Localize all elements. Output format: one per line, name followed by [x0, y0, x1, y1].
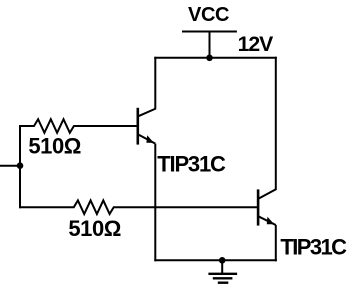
svg-text:510Ω: 510Ω: [28, 133, 81, 158]
svg-text:TIP31C: TIP31C: [280, 235, 347, 260]
wire left bus vertical: [19, 125, 21, 208]
svg-text:510Ω: 510Ω: [68, 216, 121, 241]
transistor Q2 emitter arrow: [264, 217, 276, 227]
wire VCC stub: [209, 32, 211, 58]
wire Q1 emitter vertical: [154, 144, 156, 262]
resistor R1: [19, 119, 138, 133]
resistor R2: [19, 200, 258, 214]
transistor Q1 emitter arrow: [144, 135, 156, 146]
wire Q2 emitter vertical: [275, 225, 277, 261]
node ground junction dot: [219, 257, 226, 264]
svg-text:VCC: VCC: [188, 4, 229, 26]
transistor Q2 collector diagonal: [258, 189, 276, 199]
wire Q1 collector vertical: [154, 57, 156, 109]
svg-text:12V: 12V: [238, 33, 274, 56]
transistor Q1 collector diagonal: [138, 109, 156, 117]
wire top rail: [154, 57, 276, 59]
node VCC junction dot: [206, 55, 213, 62]
transistor Q2 base bar: [257, 189, 260, 225]
transistor Q1 emitter diagonal: [138, 134, 156, 143]
node input junction dot: [17, 162, 24, 169]
wire bottom rail: [154, 259, 276, 261]
wire input stub: [0, 165, 20, 167]
wire ground stub: [221, 260, 223, 274]
transistor Q2 emitter diagonal: [258, 216, 276, 225]
transistor Q1 base bar: [137, 108, 140, 145]
wire Q2 collector vertical: [275, 57, 277, 190]
VCC power symbol bar: [182, 31, 237, 33]
ground symbol: [208, 274, 237, 283]
svg-text:TIP31C: TIP31C: [157, 152, 226, 177]
